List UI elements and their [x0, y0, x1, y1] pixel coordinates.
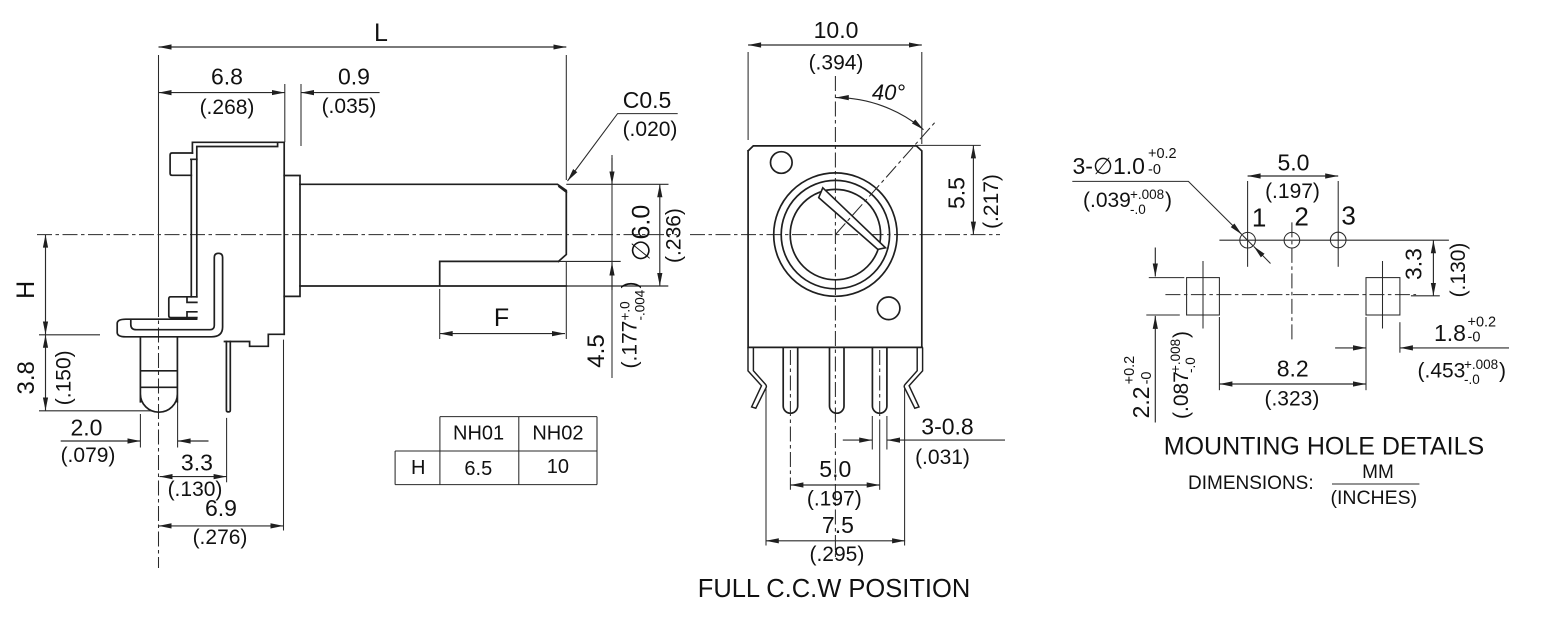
svg-text:NH01: NH01: [453, 423, 504, 445]
svg-text:F: F: [494, 304, 509, 332]
svg-text:6.9: 6.9: [205, 495, 237, 521]
svg-text:-.0: -.0: [1130, 202, 1146, 217]
svg-text:(.035): (.035): [322, 95, 377, 118]
LEFT SIDE VIEW: [12, 19, 686, 568]
svg-text:): ): [1499, 360, 1506, 383]
dimension 8.2: [1218, 317, 1220, 390]
svg-text:-0: -0: [1139, 371, 1155, 384]
svg-text:H: H: [411, 457, 425, 479]
vertical pin center / extension line: [158, 55, 160, 302]
front plate double line: [191, 159, 197, 296]
mounting bracket: [117, 253, 222, 336]
svg-text:40°: 40°: [872, 80, 905, 105]
svg-text:2.2: 2.2: [1128, 386, 1154, 418]
dimension 2.0: [139, 414, 141, 448]
svg-text:3.3: 3.3: [1401, 248, 1427, 280]
svg-text:2.0: 2.0: [71, 415, 103, 441]
lug tick lines: [1202, 261, 1204, 329]
thin pin: [226, 342, 230, 412]
svg-text:10.0: 10.0: [814, 17, 859, 43]
svg-text:(.130): (.130): [1447, 243, 1470, 298]
shaft: [300, 184, 566, 261]
svg-text:5.0: 5.0: [819, 456, 851, 482]
svg-text:3-∅1.0: 3-∅1.0: [1073, 153, 1145, 179]
dimension H: [45, 235, 47, 335]
svg-text:NH02: NH02: [532, 423, 583, 445]
terminal pin 1: [783, 347, 798, 413]
hole 2: [1284, 232, 1300, 248]
svg-text:+0.2: +0.2: [1122, 356, 1138, 385]
pin1 center line: [789, 350, 791, 490]
dimension 3.3: [226, 418, 228, 482]
svg-text:(.087: (.087: [1170, 371, 1193, 419]
left mounting leg: [748, 347, 766, 408]
svg-text:(.295): (.295): [809, 543, 864, 566]
dimension 5.5: [917, 144, 981, 146]
svg-text:-.0: -.0: [1183, 357, 1198, 373]
shaft flat edge with extension: [440, 260, 621, 262]
svg-text:3-0.8: 3-0.8: [921, 414, 973, 440]
svg-text:(.268): (.268): [200, 96, 255, 119]
lower left tab: [169, 297, 197, 318]
svg-text:MM: MM: [1362, 462, 1394, 483]
svg-text:(.276): (.276): [193, 526, 248, 549]
hole 3: [1330, 232, 1346, 248]
small hole top-left: [771, 152, 793, 174]
bushing: [284, 176, 300, 297]
dimension 1.8: [1399, 322, 1401, 353]
svg-text:8.2: 8.2: [1277, 356, 1309, 382]
svg-text:6.8: 6.8: [211, 64, 243, 90]
svg-text:(.177: (.177: [619, 321, 642, 369]
MIDDLE FRONT VIEW: [690, 17, 1005, 603]
svg-text:(.453: (.453: [1418, 360, 1466, 383]
svg-text:C0.5: C0.5: [623, 87, 672, 113]
body bottom steps: [225, 334, 285, 346]
hole 1: [1240, 232, 1256, 248]
svg-text:L: L: [374, 19, 388, 47]
holes axis line: [1219, 239, 1449, 241]
40 degree arc: [836, 98, 924, 130]
body right edge: [283, 142, 285, 334]
svg-text:(.197): (.197): [807, 488, 862, 511]
dimension 2.2: [1149, 277, 1185, 279]
dimension 3.3: [1411, 295, 1440, 297]
dimension 5.0 holes: [1248, 175, 1339, 177]
svg-text:+.008: +.008: [1130, 187, 1164, 202]
svg-text:): ): [619, 282, 642, 289]
svg-text:-0: -0: [1148, 162, 1161, 178]
RIGHT MOUNTING HOLE VIEW: [1072, 146, 1509, 509]
dimension 7.5: [765, 388, 767, 546]
right lug square: [1366, 278, 1400, 315]
horizontal center axis line: [37, 234, 677, 236]
svg-text:6.5: 6.5: [464, 458, 492, 480]
rotor inner circle: [790, 189, 880, 279]
left lug square: [1187, 278, 1220, 315]
svg-text:+.0: +.0: [618, 301, 633, 320]
svg-text:1.8: 1.8: [1434, 320, 1466, 346]
svg-text:0.9: 0.9: [338, 64, 370, 90]
dimension 5.0: [790, 484, 879, 486]
svg-text:FULL C.C.W POSITION: FULL C.C.W POSITION: [698, 575, 971, 603]
rotor position indicator line: [835, 123, 934, 235]
svg-text:(.079): (.079): [61, 444, 116, 467]
svg-text:3.8: 3.8: [13, 361, 40, 394]
svg-text:10: 10: [547, 456, 569, 478]
svg-text:(.323): (.323): [1264, 388, 1319, 411]
svg-text:(.039: (.039: [1083, 189, 1131, 212]
svg-text:(.150): (.150): [52, 350, 75, 405]
small hole bottom-right: [877, 297, 900, 320]
svg-text:3.3: 3.3: [181, 450, 213, 476]
svg-text:2: 2: [1294, 201, 1308, 231]
svg-text:-0: -0: [1468, 330, 1481, 346]
svg-text:(.394): (.394): [809, 52, 864, 75]
svg-text:5.5: 5.5: [944, 177, 970, 209]
svg-text:3: 3: [1341, 201, 1355, 231]
dimension 4.5: [611, 155, 613, 378]
hole tick lines: [1247, 181, 1249, 267]
svg-text:1: 1: [1252, 203, 1266, 233]
hole diameter leader 3-dia1.0: [1073, 146, 1177, 179]
svg-text:+0.2: +0.2: [1148, 146, 1177, 162]
svg-text:4.5: 4.5: [583, 334, 610, 367]
horizontal center line: [1165, 294, 1416, 296]
terminal pin 2: [830, 347, 845, 413]
rotor middle circle: [781, 180, 889, 288]
rotor outer circle: [774, 173, 897, 296]
dimension L: [159, 46, 567, 48]
vertical center line: [834, 76, 836, 560]
svg-text:(.197): (.197): [1265, 180, 1320, 203]
rotor slot: [819, 188, 886, 250]
svg-text:(.031): (.031): [915, 446, 970, 469]
svg-text:H: H: [12, 281, 40, 299]
dimension F: [439, 289, 441, 339]
svg-text:DIMENSIONS:: DIMENSIONS:: [1188, 473, 1314, 494]
svg-text:5.0: 5.0: [1278, 150, 1310, 176]
svg-text:7.5: 7.5: [822, 512, 854, 538]
shaft bottom line extension: [566, 285, 668, 287]
svg-text:-.004: -.004: [633, 289, 648, 320]
upper left tab: [170, 153, 192, 175]
dimension 3-0.8: [871, 416, 873, 450]
svg-text:MOUNTING HOLE DETAILS: MOUNTING HOLE DETAILS: [1164, 433, 1484, 461]
right mounting leg: [904, 347, 922, 408]
H value table: [395, 417, 597, 485]
dimension 10.0: [747, 52, 749, 140]
svg-text:): ): [1165, 189, 1172, 212]
svg-text:+.008: +.008: [1464, 357, 1498, 372]
svg-text:(INCHES): (INCHES): [1330, 487, 1417, 509]
svg-text:): ): [1170, 331, 1193, 338]
body top cap: [191, 142, 284, 159]
svg-text:(.217): (.217): [980, 174, 1003, 229]
svg-text:+.008: +.008: [1168, 339, 1183, 373]
terminal pin 3: [872, 347, 887, 413]
dimension dia 6.0: [566, 183, 668, 185]
dimension 6.8: [159, 92, 285, 94]
big round pin: [140, 337, 177, 412]
vertical center line: [1291, 222, 1293, 340]
svg-text:(.020): (.020): [623, 118, 678, 141]
dimension 0.9: [301, 92, 380, 94]
dimension 3.8: [45, 335, 47, 411]
svg-text:∅6.0: ∅6.0: [628, 205, 656, 262]
svg-text:-.0: -.0: [1464, 372, 1480, 387]
dimension 6.9: [283, 340, 285, 531]
svg-text:(.236): (.236): [663, 208, 686, 263]
horizontal center line: [690, 234, 1000, 236]
front body outline: [748, 146, 922, 348]
svg-text:+0.2: +0.2: [1468, 315, 1497, 331]
pin3 center line: [879, 350, 881, 420]
